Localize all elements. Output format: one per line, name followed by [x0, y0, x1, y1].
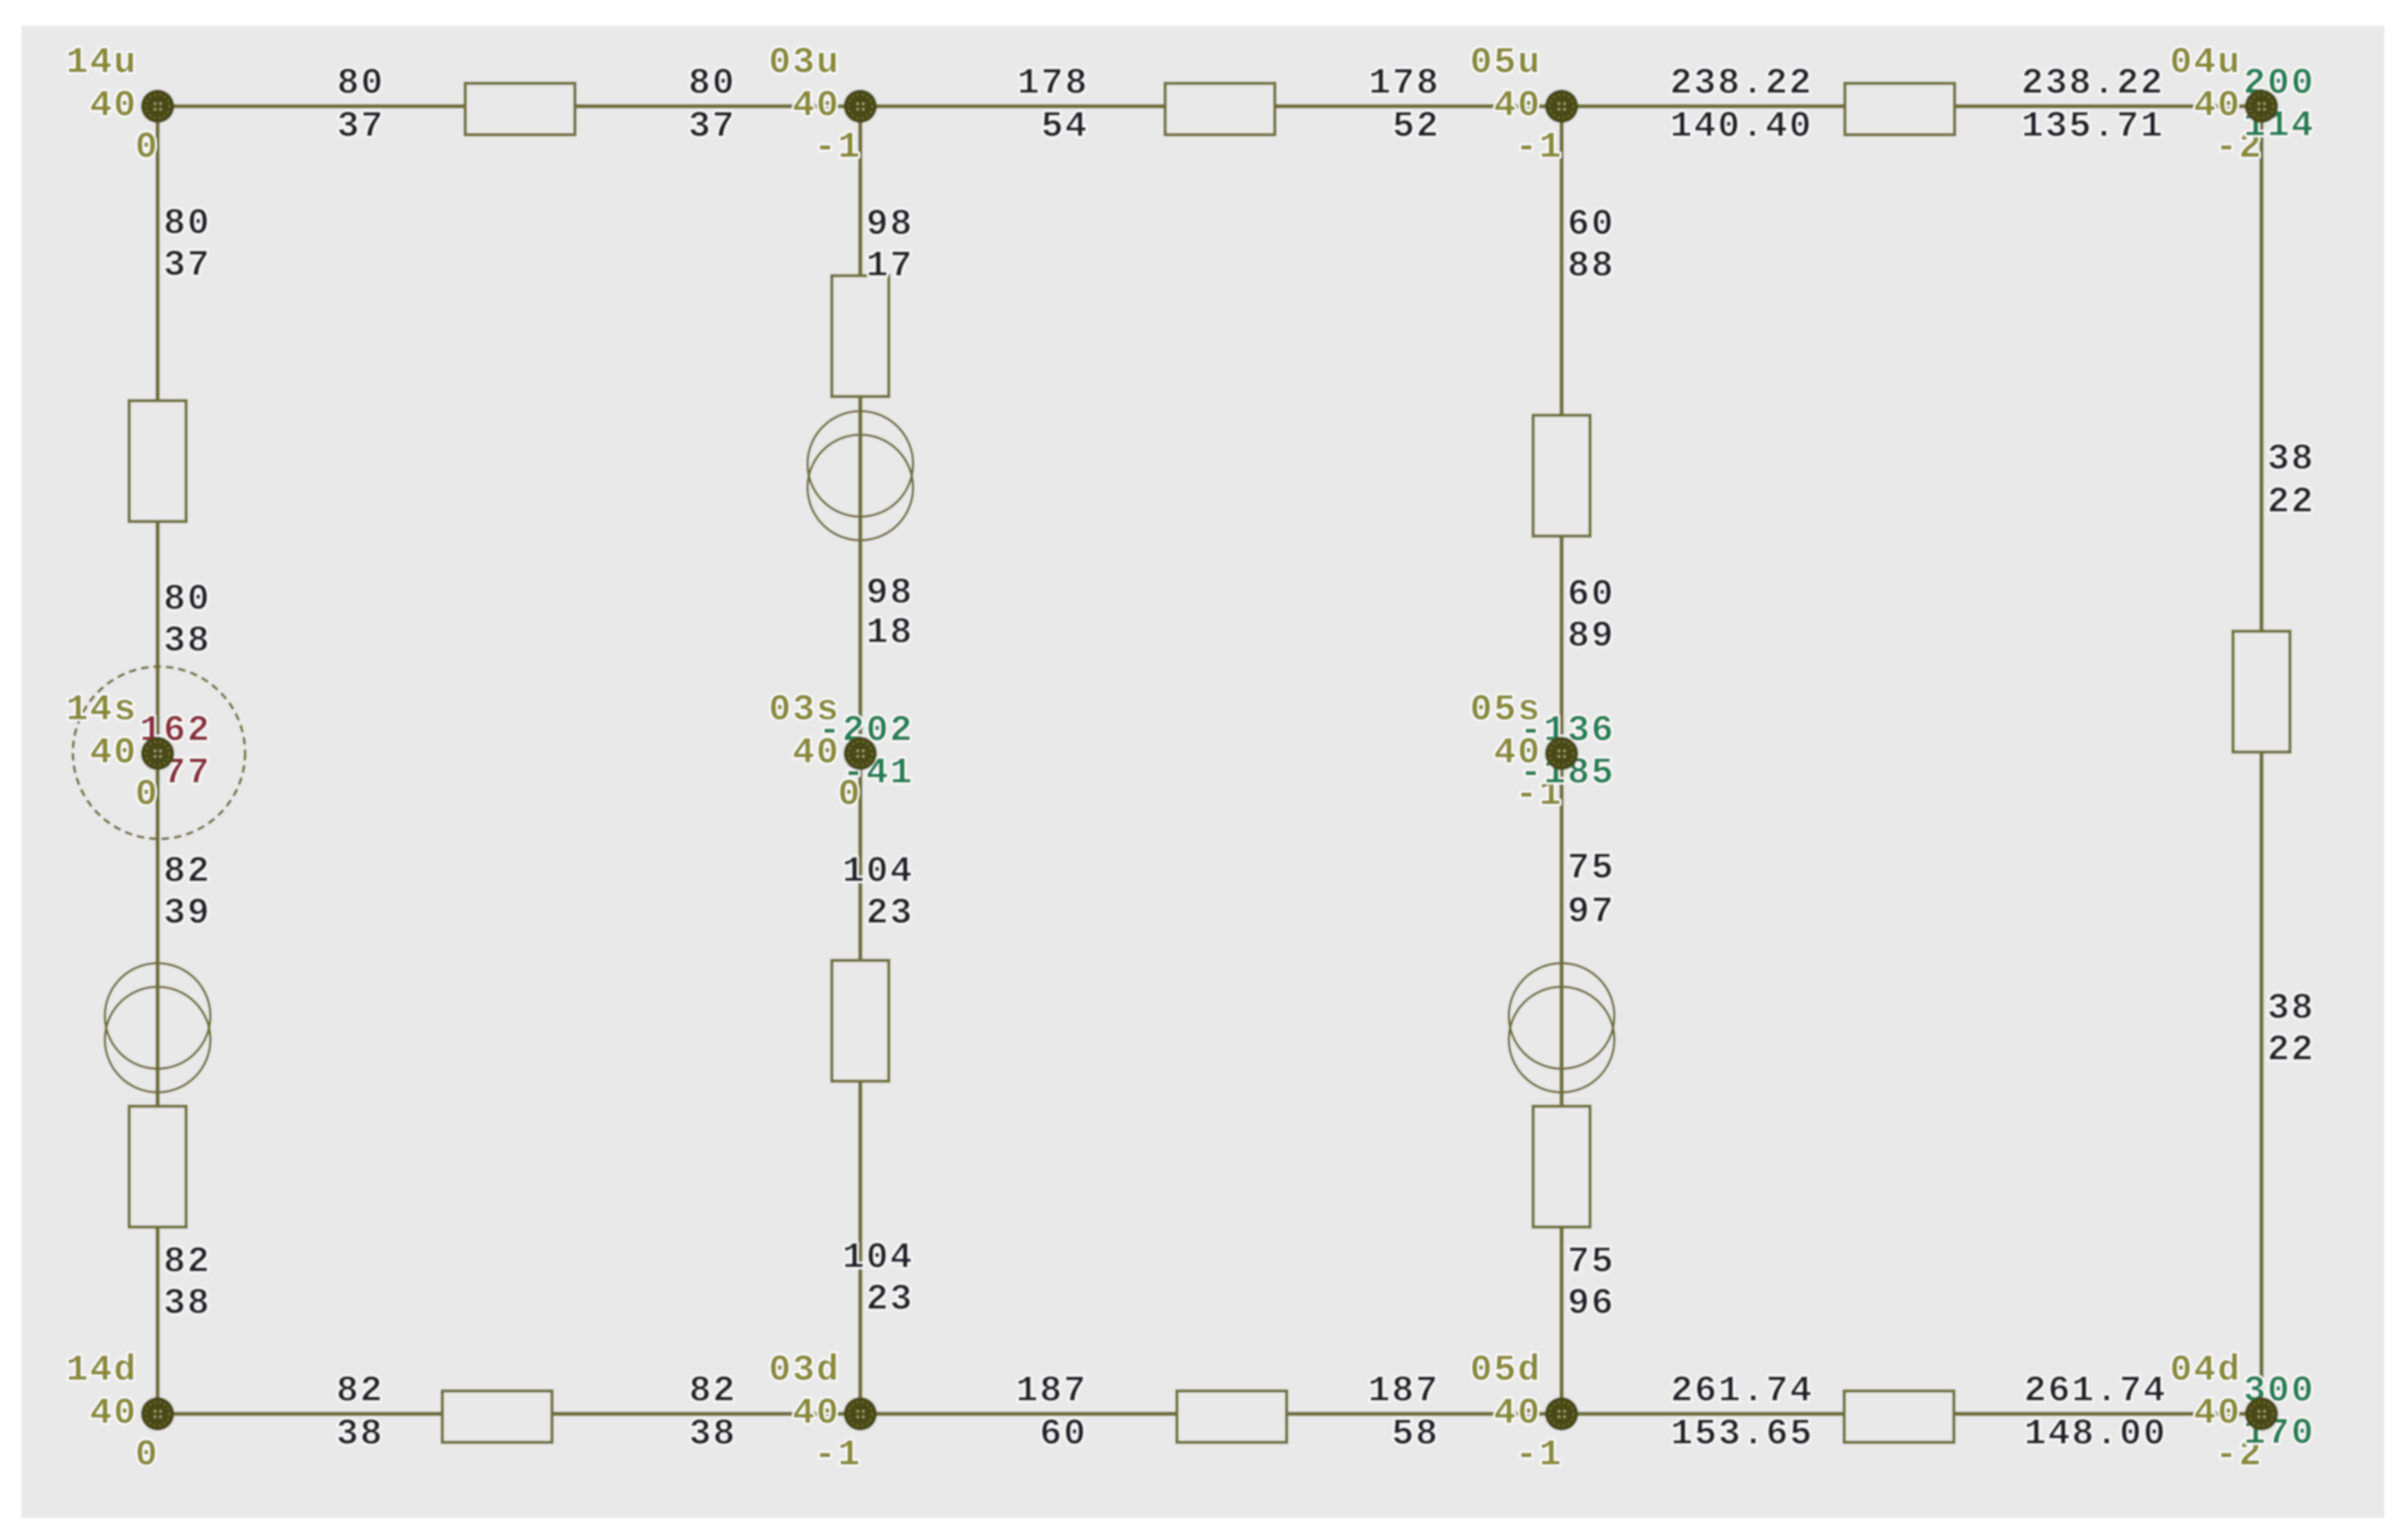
svg-text:38: 38: [163, 620, 211, 662]
svg-text:178: 178: [1369, 62, 1440, 104]
svg-text:80: 80: [337, 62, 385, 104]
svg-text:178: 178: [1017, 62, 1089, 104]
svg-text:38: 38: [689, 1413, 737, 1455]
svg-text:38: 38: [336, 1413, 384, 1455]
svg-text:54: 54: [1041, 106, 1089, 147]
svg-text:153.65: 153.65: [1671, 1413, 1814, 1455]
svg-text:238.22: 238.22: [2021, 62, 2164, 104]
svg-text:97: 97: [1567, 891, 1615, 933]
svg-text:05u: 05u: [1470, 42, 1541, 83]
svg-text:82: 82: [163, 851, 211, 892]
svg-text:52: 52: [1392, 106, 1440, 147]
svg-text:104: 104: [842, 851, 914, 892]
svg-text:04u: 04u: [2170, 42, 2241, 83]
svg-text:148.00: 148.00: [2024, 1413, 2167, 1455]
svg-text:187: 187: [1016, 1370, 1087, 1412]
svg-text:82: 82: [336, 1370, 384, 1412]
svg-text:40: 40: [90, 1392, 137, 1434]
svg-text:38: 38: [163, 1283, 211, 1324]
svg-text:60: 60: [1567, 203, 1615, 245]
svg-text:05d: 05d: [1470, 1349, 1541, 1391]
svg-text:0: 0: [135, 1434, 159, 1476]
svg-text:37: 37: [688, 106, 736, 147]
svg-text:03d: 03d: [769, 1349, 840, 1391]
svg-text:38: 38: [2267, 987, 2315, 1029]
svg-text:80: 80: [163, 203, 211, 244]
svg-text:75: 75: [1567, 847, 1615, 889]
svg-text:104: 104: [842, 1237, 914, 1278]
svg-text:23: 23: [866, 1278, 914, 1320]
svg-text:04d: 04d: [2170, 1349, 2241, 1391]
svg-text:238.22: 238.22: [1670, 62, 1813, 104]
svg-text:37: 37: [163, 244, 211, 286]
svg-text:37: 37: [337, 106, 385, 147]
svg-text:-1: -1: [1515, 1434, 1563, 1476]
svg-text:17: 17: [866, 245, 914, 287]
svg-text:40: 40: [90, 85, 137, 126]
svg-text:98: 98: [866, 572, 914, 614]
svg-text:75: 75: [1567, 1241, 1615, 1283]
svg-text:22: 22: [2267, 1029, 2315, 1071]
svg-text:261.74: 261.74: [1671, 1370, 1814, 1412]
svg-text:82: 82: [163, 1241, 211, 1283]
svg-text:03u: 03u: [769, 42, 840, 83]
svg-text:80: 80: [163, 578, 211, 620]
svg-text:-1: -1: [1515, 126, 1563, 168]
svg-text:60: 60: [1567, 574, 1615, 615]
svg-text:140.40: 140.40: [1670, 106, 1813, 147]
svg-text:-1: -1: [814, 126, 862, 168]
svg-text:22: 22: [2267, 481, 2315, 523]
svg-text:40: 40: [1494, 1392, 1541, 1434]
svg-text:40: 40: [792, 85, 840, 126]
svg-text:-1: -1: [814, 1434, 862, 1476]
svg-text:80: 80: [688, 62, 736, 104]
svg-text:82: 82: [689, 1370, 737, 1412]
svg-text:18: 18: [866, 612, 914, 653]
svg-text:0: 0: [135, 774, 159, 815]
svg-text:89: 89: [1567, 615, 1615, 657]
svg-text:40: 40: [2193, 85, 2241, 126]
svg-text:14s: 14s: [66, 689, 137, 731]
svg-text:96: 96: [1567, 1283, 1615, 1324]
svg-text:40: 40: [792, 1392, 840, 1434]
svg-text:0: 0: [135, 126, 159, 168]
svg-text:23: 23: [866, 892, 914, 934]
svg-text:40: 40: [2193, 1392, 2241, 1434]
svg-text:40: 40: [1494, 85, 1541, 126]
svg-text:38: 38: [2267, 438, 2315, 480]
svg-text:187: 187: [1368, 1370, 1439, 1412]
svg-text:88: 88: [1567, 245, 1615, 287]
svg-text:261.74: 261.74: [2024, 1370, 2167, 1412]
svg-text:39: 39: [163, 892, 211, 934]
svg-text:58: 58: [1391, 1413, 1439, 1455]
svg-text:60: 60: [1039, 1413, 1087, 1455]
svg-text:135.71: 135.71: [2021, 106, 2164, 147]
svg-text:98: 98: [866, 203, 914, 245]
svg-text:40: 40: [90, 732, 137, 774]
svg-text:14u: 14u: [66, 42, 137, 83]
svg-text:14d: 14d: [66, 1349, 137, 1391]
